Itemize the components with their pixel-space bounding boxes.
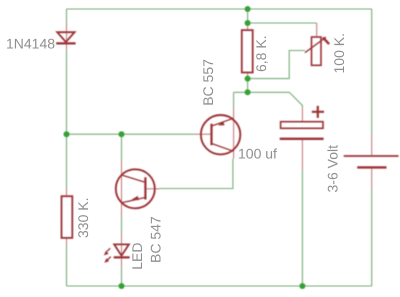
capacitor 100 uf	[280, 106, 324, 139]
wire BC557 emitter up to node	[233, 92, 235, 107]
resistor 330 K.	[62, 196, 73, 238]
pin battery plus stub	[371, 134, 373, 156]
svg-text:330 K.: 330 K.	[75, 198, 91, 238]
pin 6.8K bottom stub	[247, 73, 249, 79]
pin 6.8K top stub	[247, 23, 249, 30]
pin capacitor plus stub	[301, 109, 303, 122]
pin battery minus stub	[371, 168, 373, 188]
wire capacitor bottom to bottom rail	[301, 170, 303, 286]
pin BC547 collector-emitter lead	[121, 160, 123, 216]
svg-text:1N4148: 1N4148	[6, 36, 55, 52]
wire left rail below 330K	[66, 246, 68, 286]
LED	[104, 244, 130, 262]
node junction top rail x247	[245, 6, 251, 12]
pin 330K bottom stub	[66, 238, 68, 246]
node junction y78	[245, 76, 251, 82]
wire left rail above diode	[66, 9, 68, 24]
wire top rail	[67, 8, 372, 10]
wire node y23 to pot top	[248, 22, 317, 24]
wire BC547 emitter to LED	[121, 216, 123, 234]
wire BC547 collector riser	[121, 134, 123, 160]
wire 6.8K top net from top rail	[247, 9, 249, 23]
svg-text:100 uf: 100 uf	[238, 146, 277, 162]
svg-text:6,8 K.: 6,8 K.	[253, 35, 269, 72]
pin BC547 base stub	[146, 188, 160, 190]
wire left rail diode to mid node	[66, 50, 68, 188]
svg-text:LED: LED	[129, 243, 145, 270]
battery 3-6 Volt	[344, 156, 399, 167]
resistor 6.8 K.	[242, 30, 253, 72]
wire bottom rail	[67, 285, 372, 287]
diode 1N4148	[56, 32, 75, 43]
wire between node y78 and node y92	[247, 79, 249, 93]
svg-text:BC 547: BC 547	[148, 216, 164, 263]
svg-text:100 K.: 100 K.	[331, 33, 347, 73]
transistor BC 547 (NPN)	[116, 169, 155, 208]
node junction y92	[245, 89, 251, 95]
wire LED cathode to bottom rail	[121, 267, 123, 286]
wire right rail lower (battery - to bottom rail)	[371, 189, 373, 287]
wire right rail upper (to battery +)	[371, 9, 373, 134]
node junction mid-left	[64, 131, 70, 137]
wire mid horizontal to BC557 base	[67, 133, 196, 135]
node junction bottom LED	[119, 283, 125, 289]
pin BC557 emitter-collector lead	[233, 108, 235, 159]
potentiometer 100 K.	[305, 37, 329, 65]
pin BC557 base stub	[195, 133, 211, 135]
svg-text:3-6 Volt: 3-6 Volt	[325, 145, 341, 193]
pin diode anode-cathode lead	[66, 24, 68, 50]
pin pot top stub	[316, 23, 318, 37]
wire BC547 base to BC557 collector	[160, 159, 233, 189]
pin LED lead	[121, 234, 123, 268]
pin 330K top stub	[66, 188, 68, 196]
node junction mid BC547	[119, 131, 125, 137]
transistor BC 557 (PNP)	[201, 115, 240, 154]
wire 6.8K bottom node to pot wiper	[248, 51, 305, 79]
svg-text:BC 557: BC 557	[200, 59, 216, 106]
node junction y23	[245, 20, 251, 26]
pin capacitor minus stub	[301, 140, 303, 170]
node junction bottom capacitor	[299, 283, 305, 289]
wire node row y92 to capacitor plus	[234, 92, 303, 108]
